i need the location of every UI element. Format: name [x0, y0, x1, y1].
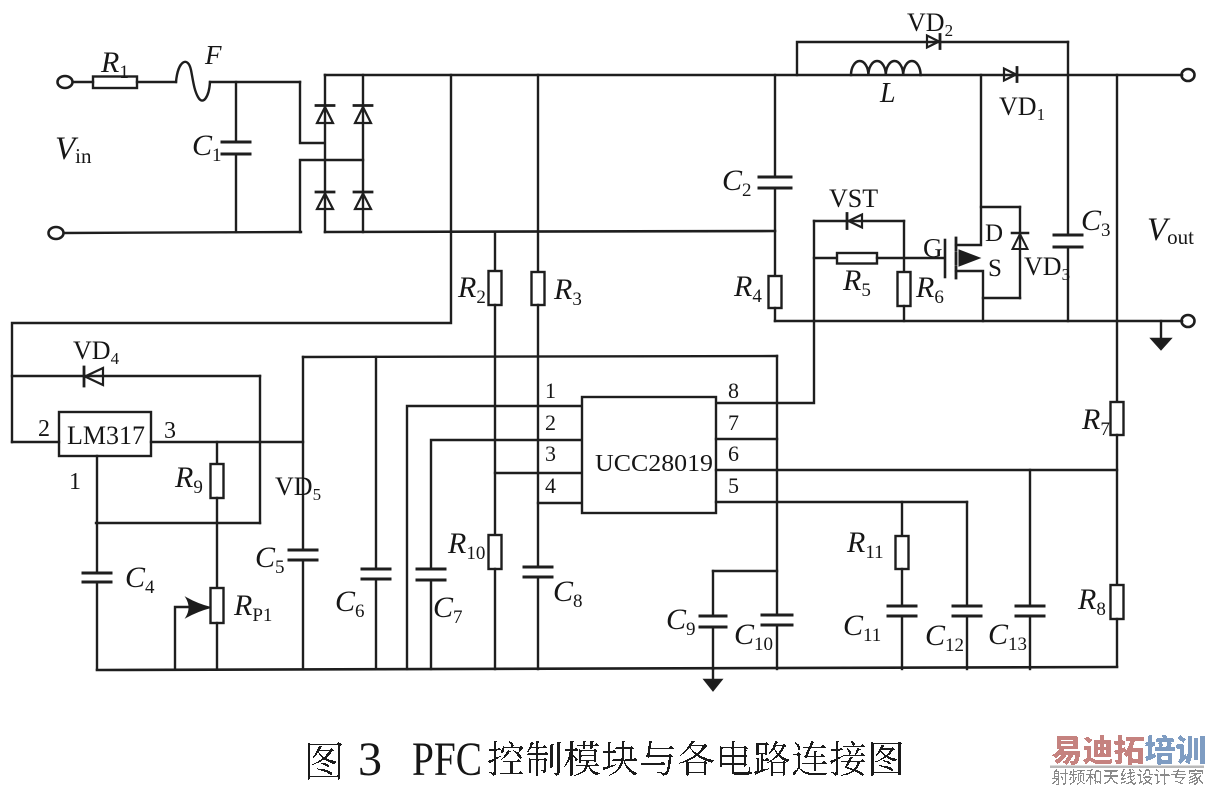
svg-text:6: 6	[728, 441, 739, 466]
watermark logo text 易迪拓	[1052, 735, 1144, 765]
svg-text:R10: R10	[447, 527, 485, 564]
svg-text:R5: R5	[842, 264, 871, 301]
transistor Q1 body arrow	[959, 250, 980, 266]
wire pin7	[716, 438, 777, 440]
wire R7/R8 column	[1116, 75, 1118, 402]
ground (output)	[1152, 321, 1170, 349]
wire	[814, 257, 837, 259]
wire VD3 loop bottom	[983, 297, 1020, 299]
wire pin3	[151, 441, 303, 443]
wire C2/R4 column	[774, 75, 776, 177]
svg-text:PFC: PFC	[412, 733, 482, 786]
svg-text:VD1: VD1	[999, 92, 1045, 124]
wire	[210, 81, 300, 83]
svg-text:7: 7	[728, 410, 739, 435]
capacitor C6	[362, 569, 390, 669]
svg-text:VST: VST	[829, 184, 878, 213]
svg-text:C13: C13	[988, 618, 1027, 655]
resistor R5	[837, 253, 877, 264]
svg-text:R11: R11	[846, 526, 884, 563]
capacitor C9	[700, 571, 726, 669]
node Vout top terminal	[1182, 69, 1195, 81]
svg-text:R1: R1	[100, 46, 129, 83]
capacitor C11	[888, 606, 916, 669]
wire top rail	[325, 74, 1182, 77]
wire C12 column	[966, 502, 968, 606]
transistor Q1 source stub	[956, 271, 983, 321]
wire	[1116, 619, 1118, 666]
resistor R9	[211, 464, 224, 498]
svg-text:C11: C11	[843, 609, 881, 646]
svg-text:LM317: LM317	[67, 421, 145, 450]
wire R6 column	[903, 221, 905, 272]
caption: 图 3	[308, 742, 342, 780]
svg-text:VD5: VD5	[275, 472, 321, 504]
capacitor C4	[83, 573, 111, 669]
diode VST	[847, 214, 862, 229]
capacitor C10	[762, 615, 792, 669]
wire pin1 (GND) drop	[407, 406, 582, 669]
svg-text:L: L	[879, 78, 896, 109]
wire bottom rail	[97, 667, 1117, 670]
wire C3 column	[1067, 42, 1069, 235]
svg-text:VD2: VD2	[907, 8, 953, 40]
transistor Q1 channel segments	[955, 238, 958, 278]
wire R9 column	[216, 442, 218, 464]
wire pin6	[716, 469, 1117, 471]
svg-text:R2: R2	[457, 271, 486, 308]
wire mid rail (output return)	[775, 320, 1182, 323]
svg-text:R7: R7	[1081, 403, 1110, 440]
svg-text:8: 8	[728, 378, 739, 403]
node Vout bottom terminal	[1182, 315, 1195, 327]
svg-text:5: 5	[728, 473, 739, 498]
svg-text:S: S	[988, 255, 1002, 282]
svg-text:C9: C9	[666, 603, 696, 640]
fuse F	[176, 62, 210, 101]
svg-text:R4: R4	[733, 270, 762, 307]
wire	[216, 498, 218, 588]
svg-text:2: 2	[38, 416, 50, 442]
ground (signal)	[705, 669, 721, 690]
wire VD2 branch	[797, 42, 1068, 75]
wire R3 column top	[537, 75, 539, 272]
wire pin2 drop to C7	[431, 440, 582, 569]
wire	[1116, 435, 1118, 585]
caption figure text	[358, 733, 482, 786]
wire	[64, 232, 301, 233]
svg-text:2: 2	[545, 410, 556, 435]
wire	[774, 308, 776, 321]
svg-text:R8: R8	[1077, 583, 1106, 620]
resistor R3	[532, 272, 545, 305]
svg-text:C3: C3	[1081, 204, 1111, 241]
svg-text:F: F	[204, 40, 222, 70]
svg-text:Vin: Vin	[55, 131, 92, 168]
wire bridge right column	[362, 75, 364, 232]
svg-text:RP1: RP1	[233, 589, 272, 626]
svg-text:C6: C6	[335, 585, 365, 622]
svg-text:G: G	[923, 233, 943, 263]
transistor Q1 MOSFET gate bar	[944, 240, 947, 277]
wire R11 column	[901, 502, 903, 536]
diode bridge bottom-left	[316, 192, 334, 209]
wire pin4	[538, 502, 582, 504]
svg-text:Vout: Vout	[1147, 212, 1194, 249]
wire bridge bottom rail	[325, 231, 775, 232]
wire VCC rail	[303, 356, 777, 357]
wire	[813, 221, 815, 321]
watermark tagline 射频和天线设计专家	[1052, 769, 1203, 785]
resistor R10	[489, 535, 502, 569]
wire	[259, 376, 261, 523]
svg-text:3: 3	[164, 418, 176, 444]
svg-text:4: 4	[545, 473, 556, 498]
svg-text:3: 3	[545, 441, 556, 466]
capacitor C5	[289, 550, 317, 669]
resistor R8	[1111, 585, 1124, 619]
svg-text:R6: R6	[915, 271, 944, 308]
svg-text:C7: C7	[433, 591, 463, 628]
diode bridge top-left	[316, 106, 334, 124]
svg-text:R9: R9	[174, 461, 203, 498]
wire	[903, 306, 905, 321]
capacitor C7	[417, 569, 445, 669]
svg-text:C12: C12	[925, 619, 964, 656]
capacitor C2	[759, 177, 791, 276]
diode VD3	[1012, 207, 1028, 298]
wire	[216, 623, 218, 669]
svg-text:UCC28019: UCC28019	[595, 451, 713, 477]
wire bridge left column	[324, 75, 326, 232]
wire feed to LM317	[12, 75, 451, 442]
watermark underline	[1050, 766, 1204, 769]
wire	[537, 305, 539, 567]
diode VD2	[927, 35, 940, 49]
inductor L	[851, 61, 921, 75]
svg-text:C4: C4	[125, 561, 155, 598]
wire VD4 branch	[12, 375, 260, 377]
svg-text:VD3: VD3	[1024, 252, 1070, 284]
wire C9 link	[713, 570, 777, 572]
resistor R2	[489, 271, 502, 305]
resistor R4	[769, 276, 782, 308]
caption: PFC控制模块与各电路连接图	[488, 741, 902, 776]
wire pin5	[716, 501, 967, 503]
wire	[137, 81, 176, 83]
svg-text:R3: R3	[553, 273, 582, 310]
wire	[96, 522, 260, 524]
op-amp U1 UCC28019 box	[582, 397, 716, 513]
svg-text:1: 1	[545, 378, 556, 403]
wire VST loop	[814, 220, 904, 222]
wire gate	[877, 257, 944, 259]
op-amp U2 LM317 regulator box	[59, 412, 151, 456]
resistor R6	[898, 272, 911, 306]
diode bridge top-right	[354, 106, 372, 124]
wire R2 column	[494, 232, 496, 271]
wire	[901, 569, 903, 606]
node Vin bottom input terminal	[49, 227, 64, 239]
resistor R1	[93, 77, 137, 89]
wire	[300, 160, 363, 232]
transistor Q1 drain stub	[956, 75, 981, 245]
wire pin8 riser	[716, 321, 814, 403]
wire	[73, 81, 93, 83]
capacitor C1	[222, 82, 250, 232]
svg-text:D: D	[985, 220, 1003, 247]
svg-text:C8: C8	[553, 575, 583, 612]
wire pin3	[495, 472, 582, 474]
wire VD5/C5 column	[302, 357, 304, 550]
resistor R11	[896, 536, 909, 569]
wire	[300, 82, 324, 143]
svg-text:C2: C2	[722, 164, 752, 201]
potentiometer RP1 wiper arrow	[175, 598, 211, 670]
svg-text:C5: C5	[255, 541, 285, 578]
svg-text:C1: C1	[192, 129, 222, 166]
wire	[494, 569, 496, 669]
svg-text:3: 3	[358, 733, 382, 786]
wire	[494, 305, 496, 535]
svg-text:VD4: VD4	[73, 336, 120, 368]
wire pin1 column	[96, 456, 98, 573]
node Vin top input terminal	[58, 76, 73, 88]
wire VCC column	[776, 356, 778, 615]
capacitor C3	[1054, 235, 1082, 321]
diode VD4	[84, 367, 103, 386]
wire C13 column	[1029, 470, 1031, 606]
diode VD1	[1004, 68, 1017, 82]
capacitor C8	[524, 567, 552, 669]
svg-text:1: 1	[69, 469, 81, 495]
wire pin2	[12, 441, 59, 443]
diode bridge bottom-right	[354, 192, 372, 209]
potentiometer RP1	[211, 588, 224, 623]
watermark logo text 培训	[1145, 735, 1205, 765]
wire VD3 loop top	[981, 206, 1020, 208]
capacitor C12	[953, 606, 981, 669]
wire C6 column	[375, 357, 377, 569]
resistor R7	[1111, 402, 1124, 435]
capacitor C13	[1016, 606, 1044, 669]
